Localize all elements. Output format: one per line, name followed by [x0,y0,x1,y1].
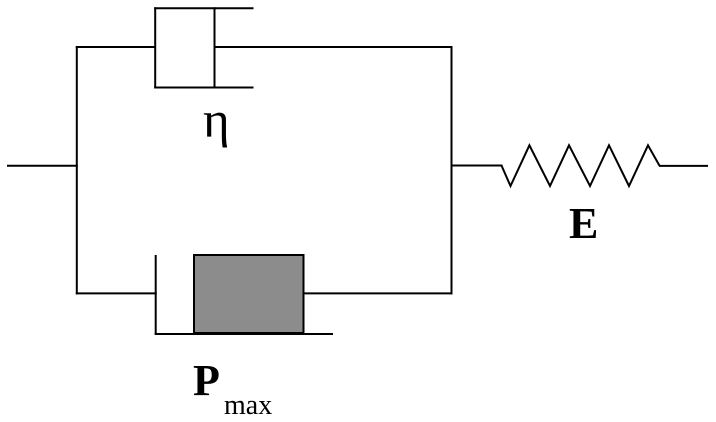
dashpot cylinder top wall [154,7,253,9]
dashpot cylinder left wall [154,7,156,88]
svg-text:E: E [569,199,598,248]
wire left vertical [76,46,78,294]
friction support bottom plate [155,333,333,335]
wire right outer lead [659,165,708,167]
dashpot cylinder bottom wall [154,87,253,89]
dashpot piston rod wire [215,46,453,48]
wire bottom branch right [303,292,453,294]
dashpot piston plate [214,7,216,88]
wire right lead to spring [452,165,503,167]
svg-text:max: max [224,390,272,421]
wire bottom branch left [76,292,157,294]
spring E zigzag [502,145,660,186]
friction support vertical [155,255,157,335]
svg-text:P: P [193,356,220,405]
friction block Pmax (gray) [194,255,304,333]
svg-text:η: η [203,93,230,149]
wire top branch left [76,46,156,48]
wire right vertical [451,46,453,294]
wire left lead [7,165,78,167]
